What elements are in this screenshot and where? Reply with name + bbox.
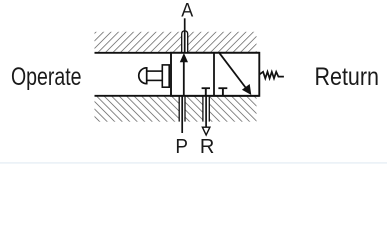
svg-text:A: A: [181, 0, 193, 21]
svg-text:Operate: Operate: [11, 63, 82, 91]
svg-text:P: P: [175, 136, 188, 158]
svg-text:Return: Return: [315, 63, 380, 91]
svg-text:R: R: [200, 136, 215, 158]
